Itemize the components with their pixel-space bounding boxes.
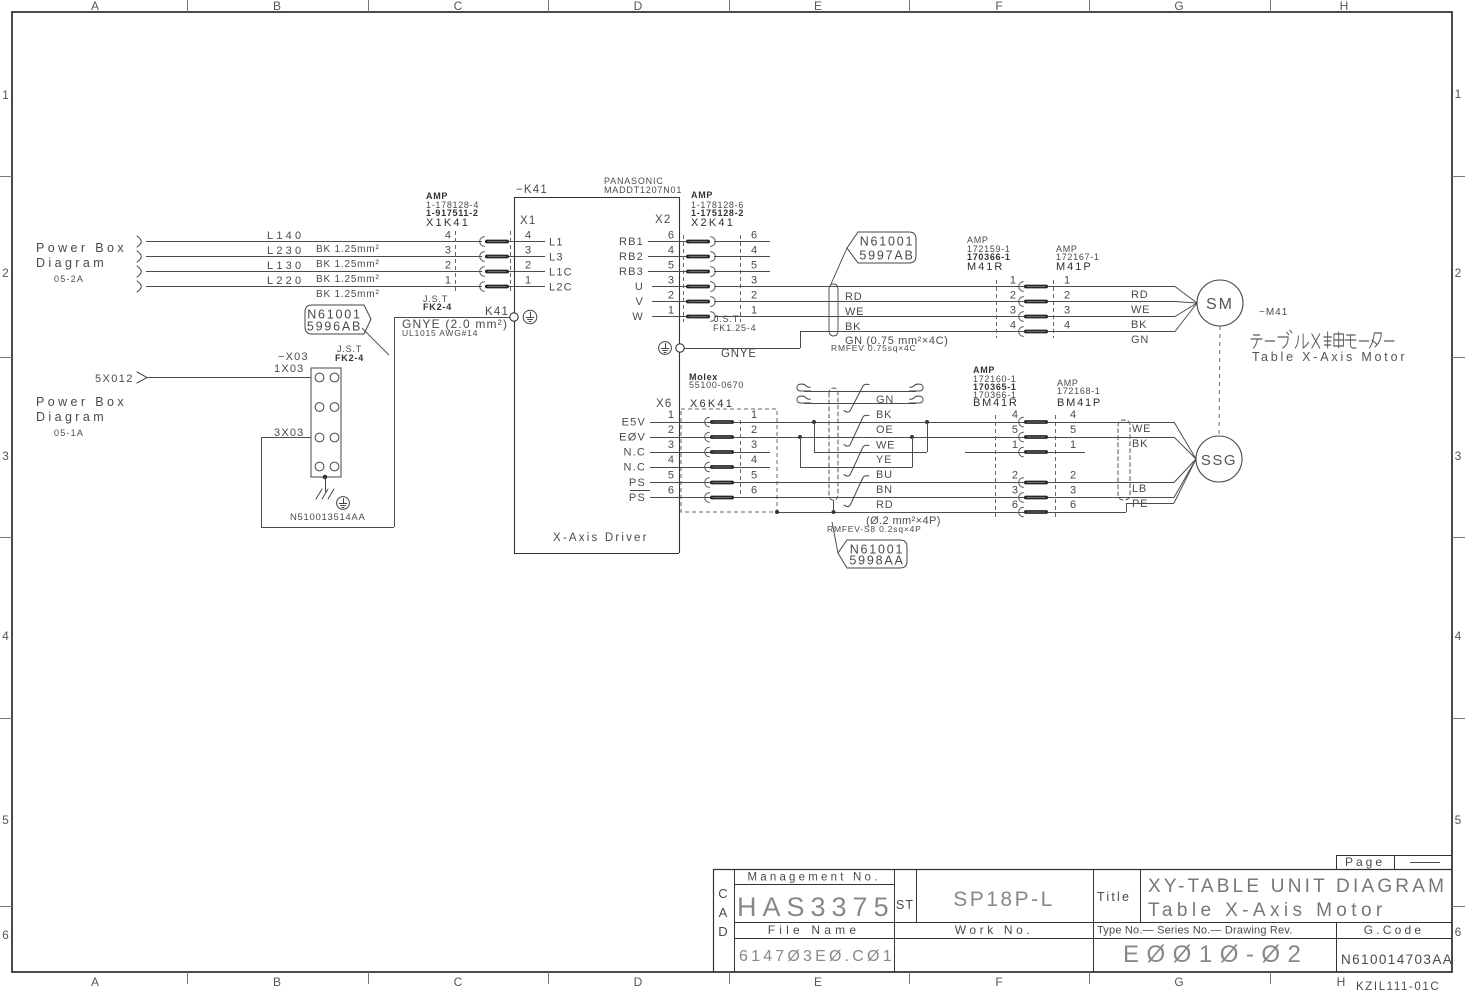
svg-text:Table X-Axis Motor: Table X-Axis Motor: [1252, 350, 1407, 364]
balloon N61001 5997AB: [847, 232, 916, 263]
svg-text:WE: WE: [1131, 304, 1150, 316]
cable sheath dashed oval encoder: [829, 388, 838, 500]
node GNYE at X2: [676, 344, 684, 352]
svg-text:1: 1: [1070, 439, 1076, 451]
twist symbol pair 1: [844, 384, 869, 412]
svg-text:3: 3: [1455, 449, 1462, 463]
wires BM41P to SSG encoder: [1048, 422, 1174, 424]
svg-text:1: 1: [668, 305, 674, 317]
crossover loop E0V-YE: [798, 435, 802, 439]
svg-text:X1K41: X1K41: [426, 217, 470, 229]
svg-text:X1: X1: [520, 215, 536, 227]
svg-text:5: 5: [668, 260, 674, 272]
svg-text:4: 4: [1010, 320, 1016, 332]
svg-text:SP18P-L: SP18P-L: [953, 888, 1055, 911]
svg-text:E5V: E5V: [622, 417, 646, 429]
svg-text:WE: WE: [876, 440, 895, 452]
svg-text:B: B: [273, 0, 281, 13]
svg-text:4: 4: [2, 629, 9, 643]
svg-text:RD: RD: [845, 291, 863, 303]
svg-text:3: 3: [1064, 305, 1070, 317]
svg-text:Title: Title: [1097, 890, 1131, 904]
motor SM: [1197, 280, 1243, 326]
svg-text:RMFEV-S8 0.2sq×4P: RMFEV-S8 0.2sq×4P: [827, 524, 922, 534]
svg-text:2: 2: [1010, 290, 1016, 302]
svg-text:L220: L220: [267, 275, 304, 287]
wire L140 from power box: [137, 236, 141, 247]
wire WE to BM41R pin1: [965, 452, 1024, 454]
coupling dashed line SM-SSG: [1219, 326, 1220, 436]
svg-text:EØØ1Ø-Ø2: EØØ1Ø-Ø2: [1123, 941, 1308, 968]
svg-text:4: 4: [751, 245, 757, 257]
svg-text:N610014703AA: N610014703AA: [1341, 952, 1453, 967]
svg-text:3: 3: [668, 275, 674, 287]
svg-text:2: 2: [2, 266, 9, 280]
encoder SSG: [1196, 436, 1242, 482]
svg-text:3: 3: [2, 449, 9, 463]
svg-text:BK 1.25mm²: BK 1.25mm²: [316, 259, 380, 270]
wires U V W to M41R: [714, 286, 1024, 288]
svg-text:3: 3: [1012, 485, 1018, 497]
svg-text:FK1.25-4: FK1.25-4: [713, 323, 756, 333]
svg-text:1: 1: [1010, 275, 1016, 287]
svg-text:2: 2: [751, 290, 757, 302]
svg-text:GNYE: GNYE: [721, 348, 757, 360]
wire GNYE from node K41: [394, 317, 510, 319]
svg-text:1: 1: [668, 409, 674, 421]
svg-text:1: 1: [2, 88, 9, 102]
svg-text:3: 3: [751, 275, 757, 287]
X-axis driver box -K41: [514, 197, 679, 199]
svg-text:4: 4: [751, 454, 757, 466]
svg-text:Power Box: Power Box: [36, 395, 127, 409]
twist symbol pair 4: [844, 476, 869, 507]
svg-text:X-Axis Driver: X-Axis Driver: [553, 532, 649, 544]
svg-text:ST: ST: [896, 898, 914, 912]
svg-text:BK: BK: [1132, 438, 1148, 450]
svg-text:4: 4: [1455, 629, 1462, 643]
svg-text:N61001: N61001: [860, 235, 915, 249]
svg-text:5: 5: [751, 260, 757, 272]
grid ticks left: [0, 176, 12, 178]
svg-text:1X03: 1X03: [274, 363, 305, 375]
svg-text:U: U: [635, 281, 644, 293]
svg-text:FK2-4: FK2-4: [335, 353, 364, 363]
svg-text:H: H: [1337, 975, 1346, 989]
earth at X03: [323, 475, 328, 480]
svg-text:Type No.— Series No.— Drawing: Type No.— Series No.— Drawing Rev.: [1097, 925, 1293, 937]
X6K41 inner dashed separator: [740, 420, 742, 494]
svg-text:4: 4: [1070, 409, 1076, 421]
wire BM41P pin6 PE jog to SSG: [1048, 512, 1126, 514]
svg-text:BK 1.25mm²: BK 1.25mm²: [316, 289, 380, 300]
svg-text:6: 6: [1455, 925, 1462, 939]
svg-text:Power Box: Power Box: [36, 241, 127, 255]
svg-text:F: F: [995, 975, 1002, 989]
svg-text:L130: L130: [267, 260, 304, 272]
earth wire GNYE to M41R pin4: [684, 348, 800, 350]
svg-text:3: 3: [1010, 305, 1016, 317]
svg-text:X2K41: X2K41: [691, 217, 735, 229]
svg-text:172168-1: 172168-1: [1057, 386, 1101, 396]
svg-text:1: 1: [525, 275, 531, 287]
grid ticks top: [187, 0, 189, 12]
earth symbol at X2: [659, 342, 672, 355]
svg-text:V: V: [635, 296, 644, 308]
X1K41 contacts: [480, 237, 485, 247]
svg-text:5: 5: [1455, 813, 1462, 827]
svg-text:BK 1.25mm²: BK 1.25mm²: [316, 244, 380, 255]
svg-text:L3: L3: [549, 252, 564, 264]
svg-text:L1C: L1C: [549, 267, 573, 279]
grid ticks bottom: [187, 972, 189, 984]
svg-text:C: C: [454, 975, 463, 989]
svg-text:File Name: File Name: [768, 923, 860, 937]
svg-text:A: A: [719, 905, 728, 920]
svg-text:3: 3: [445, 245, 451, 257]
X6K41 dashed box: [681, 409, 777, 512]
svg-text:RB3: RB3: [619, 266, 644, 278]
svg-text:RD: RD: [876, 499, 894, 511]
wires M41P to SM motor: [1048, 286, 1175, 288]
svg-text:1: 1: [1012, 439, 1018, 451]
svg-text:B: B: [273, 975, 281, 989]
twist symbol pair 3: [844, 445, 869, 476]
svg-text:4: 4: [525, 230, 531, 242]
svg-text:XY-TABLE UNIT DIAGRAM: XY-TABLE UNIT DIAGRAM: [1148, 876, 1447, 897]
svg-text:4: 4: [668, 245, 674, 257]
svg-text:BN: BN: [876, 484, 893, 496]
svg-text:GN: GN: [1131, 334, 1149, 346]
svg-text:2: 2: [1070, 470, 1076, 482]
svg-text:L140: L140: [267, 230, 304, 242]
X1 wire stubs to labels: [509, 241, 545, 243]
svg-text:5: 5: [1070, 424, 1076, 436]
wire 3X03 loop to GNYE: [261, 437, 311, 439]
leader line balloon 5996AB: [362, 328, 389, 355]
X2K41 dashed separators: [683, 235, 685, 322]
X6 stub wires N.C: [734, 452, 770, 454]
shield drain wire: [777, 512, 1024, 514]
X1K41 dashed separator: [455, 231, 457, 292]
svg-text:1: 1: [751, 305, 757, 317]
svg-text:BK: BK: [1131, 319, 1147, 331]
svg-text:SM: SM: [1206, 296, 1234, 313]
wire L220 from power box: [137, 281, 141, 292]
X2 stub wires RB1-RB3: [714, 241, 770, 243]
svg-text:Management No.: Management No.: [747, 872, 880, 884]
svg-text:BK: BK: [845, 321, 861, 333]
cable sheath oval SM: [829, 284, 838, 336]
svg-text:4: 4: [1012, 409, 1018, 421]
balloon N61001 5998AA: [838, 540, 907, 568]
svg-text:Table X-Axis Motor: Table X-Axis Motor: [1148, 900, 1387, 921]
svg-text:L2C: L2C: [549, 282, 573, 294]
svg-text:N.C: N.C: [623, 447, 646, 459]
svg-text:5: 5: [2, 813, 9, 827]
svg-text:F: F: [995, 0, 1002, 13]
label table x-axis motor japanese: [1251, 330, 1394, 348]
node K41: [510, 313, 518, 321]
svg-text:3: 3: [525, 245, 531, 257]
svg-text:PS: PS: [629, 477, 646, 489]
svg-text:2: 2: [1064, 290, 1070, 302]
svg-text:H: H: [1340, 0, 1349, 13]
svg-text:05-2A: 05-2A: [54, 274, 84, 284]
cable sheath dashed oval SSG side: [1118, 420, 1130, 500]
svg-text:SSG: SSG: [1201, 452, 1237, 469]
svg-text:E: E: [814, 975, 822, 989]
svg-text:2: 2: [525, 260, 531, 272]
svg-text:AMP: AMP: [691, 190, 713, 200]
svg-text:2: 2: [668, 290, 674, 302]
svg-text:G.Code: G.Code: [1364, 923, 1425, 937]
M41R dashed separators: [996, 280, 998, 338]
svg-text:2: 2: [445, 260, 451, 272]
svg-text:PS: PS: [629, 492, 646, 504]
svg-text:6147Ø3EØ.CØ1: 6147Ø3EØ.CØ1: [739, 948, 895, 965]
svg-text:KZIL111-01C: KZIL111-01C: [1356, 981, 1440, 992]
overline on second PS label: [630, 490, 650, 492]
svg-text:OE: OE: [876, 424, 894, 436]
svg-text:M41R: M41R: [967, 261, 1004, 273]
svg-text:LB: LB: [1132, 483, 1147, 495]
svg-text:PE: PE: [1132, 498, 1148, 510]
svg-text:M41P: M41P: [1056, 261, 1093, 273]
svg-text:6: 6: [1012, 499, 1018, 511]
svg-text:2: 2: [668, 424, 674, 436]
svg-text:MADDT1207N01: MADDT1207N01: [604, 185, 682, 195]
svg-text:A: A: [91, 975, 99, 989]
svg-text:BM41R: BM41R: [973, 397, 1019, 409]
earth symbol at K41: [523, 310, 537, 324]
svg-text:5: 5: [668, 470, 674, 482]
svg-text:5996AB: 5996AB: [307, 320, 362, 334]
grid ticks right: [1452, 176, 1465, 178]
svg-text:L230: L230: [267, 245, 304, 257]
svg-text:N.C: N.C: [623, 462, 646, 474]
svg-text:5: 5: [1012, 424, 1018, 436]
svg-text:6: 6: [668, 230, 674, 242]
svg-text:X2: X2: [655, 214, 671, 226]
svg-text:YE: YE: [876, 454, 892, 466]
svg-text:4: 4: [1064, 320, 1070, 332]
svg-text:55100-0670: 55100-0670: [689, 380, 744, 390]
twist symbol pair 2: [844, 415, 869, 446]
spare pair BK wire with hooks: [797, 396, 811, 403]
wire L130 from power box: [137, 266, 141, 277]
svg-text:5997AB: 5997AB: [859, 249, 914, 263]
svg-text:W: W: [632, 311, 644, 323]
svg-text:RMFEV 0.75sq×4C: RMFEV 0.75sq×4C: [831, 343, 916, 353]
svg-text:05-1A: 05-1A: [54, 428, 84, 438]
stub wire BM41P pin1: [1048, 452, 1085, 454]
wire L230 from power box: [137, 251, 141, 262]
svg-text:BK: BK: [876, 409, 892, 421]
svg-text:Diagram: Diagram: [36, 256, 107, 270]
leader line balloon 5997AB: [831, 248, 847, 284]
svg-text:N510013514AA: N510013514AA: [290, 512, 366, 523]
svg-text:A: A: [91, 0, 99, 13]
svg-text:5: 5: [751, 470, 757, 482]
svg-text:HAS3375: HAS3375: [737, 892, 895, 922]
svg-text:6: 6: [668, 485, 674, 497]
svg-text:D: D: [634, 975, 643, 989]
page dash: [1410, 862, 1440, 864]
svg-text:GN: GN: [876, 394, 894, 406]
svg-text:2: 2: [1455, 266, 1462, 280]
svg-text:RD: RD: [1131, 289, 1149, 301]
svg-text:G: G: [1174, 0, 1183, 13]
svg-text:UL1015 AWG#14: UL1015 AWG#14: [402, 328, 478, 338]
svg-text:3: 3: [668, 439, 674, 451]
svg-text:Diagram: Diagram: [36, 410, 107, 424]
svg-text:WE: WE: [845, 306, 864, 318]
svg-text:WE: WE: [1132, 423, 1151, 435]
wires E5V E0V PS PSbar to BM41R: [734, 422, 1024, 424]
svg-text:E: E: [814, 0, 822, 13]
svg-text:BK 1.25mm²: BK 1.25mm²: [316, 274, 380, 285]
svg-text:FK2-4: FK2-4: [423, 302, 452, 312]
svg-text:C: C: [718, 886, 727, 901]
svg-text:3: 3: [1070, 485, 1076, 497]
svg-text:−M41: −M41: [1259, 307, 1288, 318]
svg-text:D: D: [634, 0, 643, 13]
connector -X03 block: [311, 368, 341, 477]
spare pair GN wire with hooks: [797, 384, 811, 391]
svg-text:6: 6: [751, 485, 757, 497]
svg-text:G: G: [1174, 975, 1183, 989]
svg-text:6: 6: [1070, 499, 1076, 511]
svg-text:X6K41: X6K41: [690, 398, 734, 410]
svg-text:EØV: EØV: [619, 432, 646, 444]
svg-text:C: C: [454, 0, 463, 13]
svg-text:2: 2: [751, 424, 757, 436]
balloon N61001 5996AB: [305, 305, 371, 334]
svg-text:BM41P: BM41P: [1057, 397, 1102, 409]
svg-text:L1: L1: [549, 237, 564, 249]
svg-text:2: 2: [1012, 470, 1018, 482]
crossover loop E5V-WE: [812, 420, 816, 424]
svg-text:BU: BU: [876, 469, 893, 481]
svg-text:6: 6: [2, 928, 9, 942]
svg-text:1: 1: [1064, 275, 1070, 287]
svg-text:−X03: −X03: [278, 351, 309, 363]
svg-text:1: 1: [445, 275, 451, 287]
svg-text:1: 1: [751, 409, 757, 421]
svg-text:1: 1: [1455, 87, 1462, 101]
svg-text:RB1: RB1: [619, 236, 644, 248]
svg-text:6: 6: [751, 230, 757, 242]
title block outline: [713, 869, 1452, 871]
svg-text:Work No.: Work No.: [955, 923, 1034, 937]
svg-text:4: 4: [668, 454, 674, 466]
svg-text:RB2: RB2: [619, 251, 644, 263]
svg-text:D: D: [718, 924, 727, 939]
svg-text:Page: Page: [1345, 855, 1385, 869]
svg-text:3: 3: [751, 439, 757, 451]
svg-text:4: 4: [445, 230, 451, 242]
BM41R dashed separators: [995, 415, 997, 517]
wires BM41P pins 2 3 to SSG: [1048, 482, 1174, 484]
svg-text:5X012: 5X012: [95, 373, 134, 385]
page box: [1336, 855, 1452, 857]
svg-text:5998AA: 5998AA: [849, 554, 904, 568]
svg-text:−K41: −K41: [516, 184, 548, 196]
leader line balloon 5998AA: [832, 522, 838, 553]
